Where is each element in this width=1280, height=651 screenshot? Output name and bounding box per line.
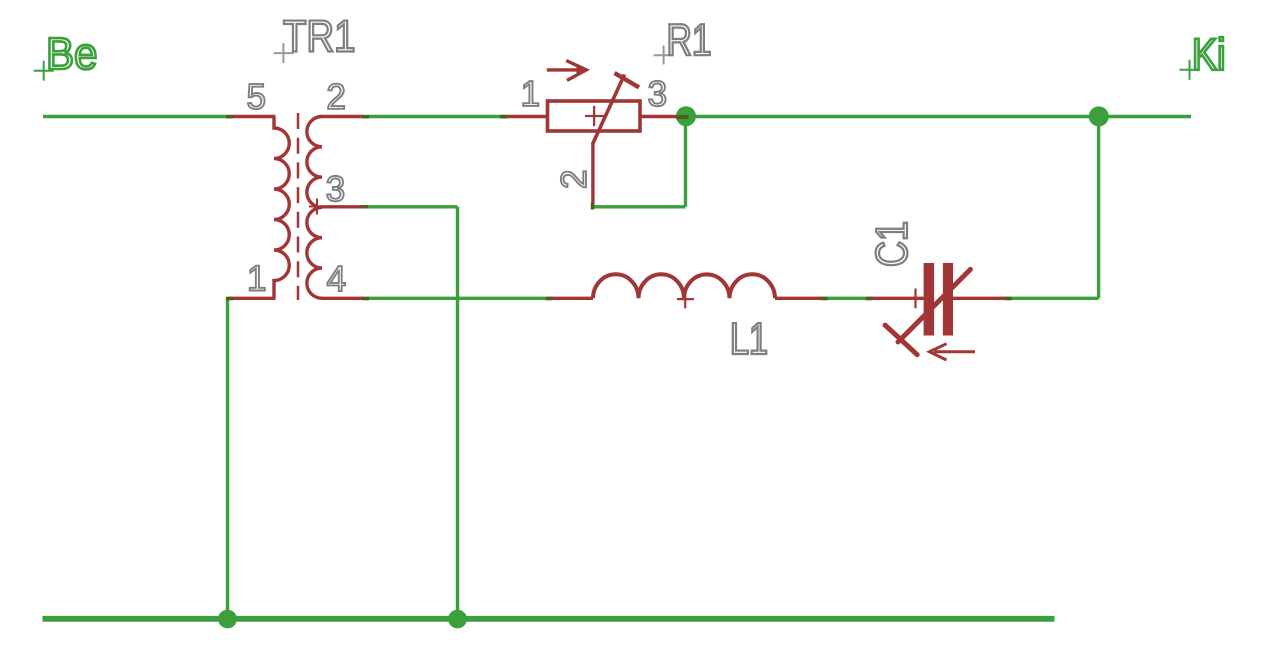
label Ki — [1195, 37, 1223, 70]
wire pin4 row — [365, 297, 549, 300]
label TR1 — [284, 21, 354, 52]
R1 pin number 1 — [523, 81, 538, 106]
net overlap marks — [226, 115, 1012, 300]
capacitor C1 trimmer T-bar — [885, 325, 917, 355]
transformer TR1 right winding — [307, 117, 322, 299]
potentiometer R1 wiper wire down — [591, 144, 594, 205]
inductor L1 origin cross — [677, 290, 694, 308]
capacitor C1 right lead — [953, 297, 1008, 300]
inductor L1 right lead — [775, 297, 824, 300]
wire vertical x457 — [456, 207, 459, 619]
transformer TR1 pin 3 stub — [321, 205, 365, 208]
transformer TR1 left winding — [274, 117, 289, 299]
capacitor C1 origin cross — [906, 289, 925, 309]
label Be — [49, 38, 95, 69]
potentiometer R1 arrow — [547, 61, 587, 81]
potentiometer R1 wiper T-bar — [615, 73, 640, 87]
transformer TR1 core dashed line — [297, 113, 300, 300]
pin number 5 — [248, 84, 265, 109]
pin number 1 — [250, 266, 265, 291]
cross Be anchor — [34, 61, 54, 81]
potentiometer R1 wiper diagonal — [592, 75, 624, 145]
cross Ki anchor — [1180, 60, 1200, 80]
transformer TR1 pin 1 stub — [228, 297, 276, 300]
bottom rail — [43, 616, 1055, 622]
capacitor C1 arrow — [930, 344, 976, 360]
junction dot right — [1089, 106, 1109, 126]
wire R1 pin2 up — [684, 117, 687, 207]
transformer TR1 pin 2 stub — [321, 115, 365, 118]
pin number 3 — [327, 176, 344, 201]
transformer TR1 origin cross — [309, 199, 325, 215]
label L1 — [733, 323, 767, 354]
wire net Be top rail — [43, 115, 1191, 118]
inductor L1 coil — [593, 274, 775, 298]
potentiometer R1 right lead — [640, 115, 680, 118]
potentiometer R1 origin cross — [585, 106, 604, 126]
transformer TR1 pin 5 stub — [229, 115, 276, 118]
capacitor C1 plate 2 — [943, 263, 953, 336]
capacitor C1 left lead — [869, 297, 924, 300]
transformer TR1 pin 4 stub — [321, 297, 365, 300]
potentiometer R1 body — [548, 101, 641, 131]
junction dot bottom mid — [448, 610, 467, 629]
wire L1 to C1 — [823, 297, 869, 300]
junction dot bottom left — [218, 610, 237, 629]
wire right vertical — [1097, 117, 1100, 299]
potentiometer R1 left lead — [503, 115, 547, 118]
label C1 rotated — [876, 223, 908, 265]
wire vertical x227 — [226, 298, 229, 618]
wire pin3 to vertical — [364, 205, 458, 208]
cross TR1 anchor — [274, 43, 294, 63]
R1 pin number 3 — [649, 81, 666, 106]
label R1 — [669, 24, 709, 55]
capacitor C1 plate 1 — [924, 263, 935, 336]
R1 pin number 2 rotated — [561, 171, 586, 187]
capacitor C1 trimmer diagonal — [898, 269, 970, 342]
pin number 4 — [327, 266, 345, 291]
pin number 2 — [328, 84, 344, 109]
wire R1 pin2 bottom — [593, 205, 686, 208]
junction dot R1 — [676, 106, 696, 126]
cross R1 anchor — [654, 46, 674, 65]
wire C1 to right vertical — [1008, 297, 1099, 300]
inductor L1 left lead — [549, 297, 593, 300]
